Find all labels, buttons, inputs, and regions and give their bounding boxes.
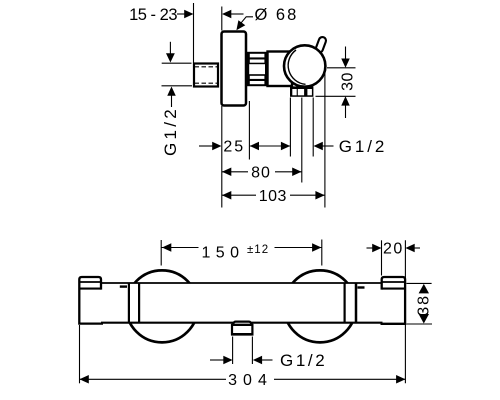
- extension line x=324.9 handle right edge: [324, 72, 326, 208]
- left sleeve lines: [128, 283, 130, 322]
- left G1/2 inlet callout: extension of pipe top edge: [162, 62, 192, 64]
- arrow left at x=313.5 with shaft: [314, 142, 323, 151]
- svg-text:G1/2: G1/2: [339, 137, 387, 156]
- svg-text:38: 38: [415, 294, 432, 316]
- thread dashed line bottom: [195, 82, 218, 84]
- extension line at wall plane x=193.5: [193, 3, 195, 63]
- svg-text:25: 25: [223, 139, 245, 156]
- leader arrow from Ø68 to escutcheon: [238, 17, 253, 27]
- dimension 30 top line: [327, 67, 356, 69]
- knob inner arc: [288, 50, 305, 84]
- arrow pointing left at x=222 (15-23 right arrow): [222, 10, 231, 19]
- dimension 304: [79, 325, 81, 383]
- svg-text:Ø 68: Ø 68: [255, 6, 299, 24]
- dimension G1/2 bottom: [232, 337, 234, 365]
- svg-text:304: 304: [228, 372, 273, 389]
- handle knob circle: [284, 45, 325, 86]
- extension line at escutcheon front x=221.8: [221, 7, 223, 31]
- svg-text:G1/2: G1/2: [280, 351, 327, 370]
- extension line x=301.8 outlet centerline: [301, 98, 303, 183]
- handle lever tab: [319, 41, 322, 49]
- extension line x=313.2 below hex: [312, 98, 314, 157]
- right joint dash: [358, 286, 365, 288]
- svg-text:80: 80: [251, 165, 271, 182]
- svg-text:15 - 23: 15 - 23: [129, 6, 177, 24]
- extension line x=249.4 below nut: [248, 101, 250, 160]
- svg-text:20: 20: [383, 241, 404, 258]
- left union circle: [126, 270, 198, 342]
- arrow up: [341, 96, 350, 105]
- dimension 15-23 arrow: [177, 13, 185, 15]
- valve body: [268, 52, 293, 87]
- bottom outlet tab: [232, 322, 252, 325]
- svg-text:G1/2: G1/2: [161, 106, 180, 156]
- dimension 30 bottom line: [316, 95, 356, 97]
- extension line x=290.4 below hex: [289, 98, 291, 157]
- outlet hex (front): [290, 86, 313, 96]
- right wall flange: [381, 277, 406, 324]
- svg-text:30: 30: [339, 72, 356, 91]
- union nut: [247, 52, 267, 86]
- dimension 38: [406, 282, 431, 284]
- dimension 80 row y=171.8: [222, 171, 248, 173]
- mixer bar body: [80, 283, 405, 322]
- right sleeve lines: [344, 283, 346, 322]
- left joint dash: [120, 285, 127, 287]
- svg-text:150: 150: [202, 245, 245, 262]
- extension line x=221.8 below disc: [221, 106, 223, 208]
- dimension 20: [381, 240, 383, 275]
- svg-text:103: 103: [259, 188, 287, 205]
- double arrow between 249.7 and 290.2: [250, 145, 290, 147]
- svg-text:±12: ±12: [247, 244, 269, 256]
- thread dashed line top: [195, 66, 218, 68]
- dimension row y=146: 25 and G1/2: [199, 145, 213, 147]
- dimension 150 +-12: [160, 240, 162, 266]
- arrow down to pipe top: [169, 42, 171, 54]
- wall supply pipe: [194, 64, 218, 87]
- right union circle: [284, 270, 356, 342]
- arrow down: [345, 47, 347, 61]
- arrow up to pipe: [167, 87, 176, 96]
- escutcheon disc Ø68 (side view): [222, 32, 247, 106]
- dimension 103 row y=195.2: [222, 194, 256, 196]
- left G1/2 inlet callout: extension of pipe underside: [162, 85, 193, 87]
- left wall flange: [79, 277, 103, 324]
